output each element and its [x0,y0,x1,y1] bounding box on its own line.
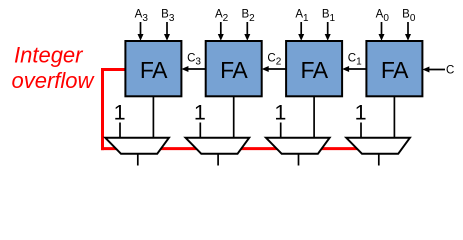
svg-text:B2: B2 [241,9,255,25]
wire S1 sum output from FA1 to mux [313,96,315,139]
wire carry C2 from FA1 to FA2 with left arrowhead [262,66,286,72]
wire carry C3 from FA2 to FA3 with left arrowhead [181,66,205,72]
wire sum3 output from mux M3 [137,155,139,166]
multiplexer M3 [105,138,169,154]
full adder FA0 [366,41,422,96]
wire sum0 output from mux M0 [378,155,380,166]
svg-text:C: C [446,65,454,77]
wire B1 input with arrowhead into FA top [325,22,331,41]
svg-text:B0: B0 [402,9,416,25]
wire A3 input with arrowhead into FA top [138,22,144,41]
svg-text:A0: A0 [376,9,390,25]
svg-text:FA: FA [140,57,168,83]
wire S3 sum output from FA3 to mux [152,96,154,139]
wire carry C1 from FA0 to FA1 with left arrowhead [342,66,366,72]
svg-text:1: 1 [274,101,286,125]
net OVERFLOW: bottom horizontal select line to all mux select inputs [101,147,358,150]
multiplexer M2 [186,138,250,154]
wire S0 sum output from FA0 to mux [393,96,395,139]
wire carry-in C into FA0 with left arrowhead [422,67,445,73]
svg-text:1: 1 [194,101,206,125]
net OVERFLOW: vertical segment down left side [101,68,104,150]
multiplexer M0 [346,138,410,154]
wire constant-1 input into mux M3 [119,123,121,140]
wire constant-1 input into mux M2 [199,123,201,140]
wire constant-1 input into mux M1 [280,123,282,140]
svg-text:FA: FA [301,57,329,83]
wire sum2 output from mux M2 [217,155,219,166]
svg-text:Integer: Integer [14,43,84,68]
net OVERFLOW: horizontal segment from FA3 carry-out to corner [101,68,126,71]
svg-text:A2: A2 [215,9,229,25]
full adder FA3 [125,41,181,96]
svg-text:C1: C1 [348,53,362,68]
full adder FA1 [286,41,342,96]
wire A1 input with arrowhead into FA top [298,22,304,41]
wire B2 input with arrowhead into FA top [244,22,250,41]
svg-text:A3: A3 [135,9,149,25]
svg-text:1: 1 [114,101,126,125]
svg-text:overflow: overflow [12,68,96,93]
svg-text:A1: A1 [295,9,309,25]
wire B0 input with arrowhead into FA top [405,22,411,41]
svg-text:C3: C3 [187,53,201,68]
multiplexer M1 [266,138,330,154]
svg-text:FA: FA [220,57,248,83]
wire sum1 output from mux M1 [298,155,300,166]
node label: Integer overflow (red italic text) [12,43,96,94]
full adder FA2 [206,41,262,96]
wire S2 sum output from FA2 to mux [233,96,235,139]
svg-text:FA: FA [381,57,409,83]
wire A2 input with arrowhead into FA top [218,22,224,41]
svg-text:C2: C2 [267,53,281,68]
svg-text:B1: B1 [322,9,336,25]
wire B3 input with arrowhead into FA top [164,22,170,41]
svg-text:1: 1 [355,101,367,125]
svg-text:B3: B3 [161,9,175,25]
wire A0 input with arrowhead into FA top [379,22,385,41]
wire constant-1 input into mux M0 [360,123,362,140]
